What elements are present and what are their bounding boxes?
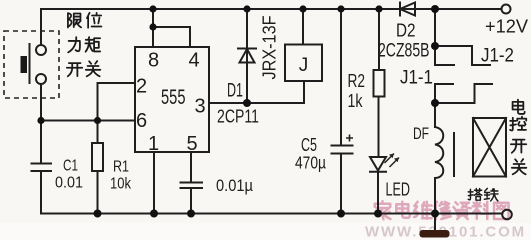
- wire LED to ground: [377, 172, 379, 214]
- watermark site name: [375, 201, 509, 219]
- wire DF coil bottom: [434, 178, 436, 214]
- svg-text:6: 6: [136, 110, 147, 132]
- capacitor C3 0.01u: [181, 183, 203, 189]
- svg-text:JRX-13F: JRX-13F: [260, 15, 280, 79]
- svg-text:DF: DF: [413, 125, 429, 143]
- wire R2 to LED: [378, 97, 380, 158]
- svg-text:8: 8: [148, 50, 159, 72]
- svg-text:4: 4: [188, 50, 199, 72]
- svg-text:LED: LED: [386, 180, 411, 200]
- wire pin1 to ground: [153, 152, 155, 214]
- wire pin3 output: [209, 102, 304, 104]
- wire C5 bottom lead: [340, 154, 342, 214]
- svg-text:1: 1: [148, 133, 159, 155]
- wire pin2 branch: [98, 83, 136, 121]
- svg-text:D2: D2: [396, 20, 416, 41]
- limit torque switch SW: [4, 31, 59, 98]
- junction dot pin3 node: [243, 99, 251, 107]
- svg-text:2CP11: 2CP11: [217, 107, 259, 127]
- wire switch to node A: [40, 84, 42, 121]
- wire pin4 branch: [153, 27, 190, 47]
- svg-text:C1: C1: [63, 158, 78, 175]
- wire R1 top lead: [97, 121, 99, 144]
- wire C1 to bottom bus: [40, 171, 42, 214]
- wire left vertical from bus to switch: [40, 9, 42, 45]
- junction dots bottom bus: [94, 210, 102, 218]
- label 限位力矩开关: [67, 13, 102, 76]
- svg-text:R2: R2: [348, 71, 366, 91]
- svg-text:10k: 10k: [110, 176, 132, 193]
- junction dot pin8/4: [149, 23, 156, 30]
- svg-text:J1-2: J1-2: [481, 46, 514, 67]
- svg-text:1k: 1k: [348, 91, 364, 111]
- wire C3 to ground: [190, 188, 192, 214]
- svg-text:R1: R1: [113, 159, 129, 176]
- junction dots top bus: [149, 5, 156, 12]
- contact J1-1: [435, 84, 492, 103]
- junction dot J1-2 node: [431, 42, 439, 50]
- svg-text:2CZ85B: 2CZ85B: [378, 41, 430, 62]
- wire chassis drop: [434, 214, 436, 231]
- svg-text:2: 2: [136, 76, 147, 98]
- core line: [453, 133, 455, 176]
- wire node A to C1: [40, 121, 42, 164]
- wire DF branch down: [434, 103, 436, 127]
- junction dot J1-1 node: [431, 99, 439, 107]
- relay coil J JRX-13F: [285, 45, 322, 82]
- svg-text:+12V: +12V: [485, 17, 528, 37]
- svg-text:0.01µ: 0.01µ: [216, 176, 253, 195]
- svg-text:3: 3: [194, 96, 205, 118]
- capacitor C1: [32, 164, 52, 172]
- wire J1 vertical from bus: [434, 9, 436, 46]
- resistor R2 1k: [374, 70, 385, 97]
- wire relay top lead: [302, 9, 304, 45]
- capacitor C5 470u: [332, 146, 353, 154]
- diode D2 2CZ85B: [399, 3, 401, 16]
- svg-text:D1: D1: [227, 81, 243, 102]
- svg-text:5: 5: [186, 133, 197, 155]
- wire pin8 drop: [152, 9, 154, 47]
- bottom scan strip: [0, 223, 531, 240]
- ground terminal circle: [502, 210, 512, 220]
- 555 timer U1: [135, 47, 209, 152]
- wire pin6 horizontal: [41, 120, 135, 122]
- wire top supply bus: [41, 8, 501, 10]
- electric control switch box: [473, 118, 506, 177]
- svg-text:470µ: 470µ: [295, 153, 326, 173]
- wire C5 top lead: [340, 9, 342, 145]
- label 电控开关: [510, 100, 526, 175]
- inductor DF coil: [435, 127, 443, 178]
- label 搭铁: [468, 188, 498, 201]
- wire pin5 lead: [190, 152, 192, 182]
- chassis ground bar: [420, 230, 450, 238]
- wire bottom ground bus: [41, 213, 502, 215]
- svg-text:J: J: [299, 55, 309, 76]
- svg-text:555: 555: [161, 86, 186, 109]
- svg-text:J1-1: J1-1: [400, 68, 433, 89]
- wire D1 vertical: [246, 9, 248, 103]
- wire relay bottom lead: [303, 81, 305, 103]
- diode D1 2CP11: [238, 48, 256, 50]
- wire R2 top lead: [378, 9, 380, 70]
- wire R1 bottom lead: [97, 171, 99, 214]
- junction dot pin2/6: [94, 117, 101, 124]
- contact J1-2: [435, 46, 490, 65]
- svg-text:0.01: 0.01: [55, 175, 83, 192]
- resistor R1: [92, 143, 103, 171]
- +12V terminal: [502, 5, 511, 14]
- LED indicator: [370, 157, 386, 171]
- junction dot node A: [37, 117, 44, 124]
